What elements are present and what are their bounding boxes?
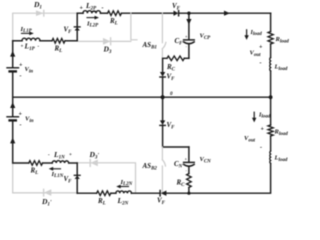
node junction dot at CF branch [187,12,190,15]
resistor RL (row 3) [29,161,43,166]
svg-text:+: + [80,6,84,12]
capacitor CN [184,162,195,166]
svg-text:-: - [186,168,188,173]
svg-text:IL1P: IL1P [20,26,33,34]
wire to junction [65,40,77,42]
svg-text:D3: D3 [103,45,112,56]
svg-text:+: + [69,153,72,158]
resistor RL (bottom rail) [97,191,111,196]
wire [131,192,160,194]
svg-text:RL: RL [97,197,106,206]
wire [101,12,108,14]
svg-text:+: + [19,63,23,69]
diode VF (center, above node 0) [160,72,165,77]
svg-text:Rload: Rload [274,129,289,137]
wire: top rail gray segment with D1 branch (left rail upper gray part) [13,13,78,41]
svg-text:-: - [260,145,262,151]
svg-text:VCP: VCP [200,33,212,41]
wire: middle rail [13,96,271,98]
resistor Rload (top) [268,32,273,45]
wire: left rail lower gray + bottom gray rail [13,163,78,193]
inductor Lload (bottom) [269,151,272,164]
wire: top rail black from node A to top-right corner [77,12,83,14]
svg-text:VF: VF [64,26,73,35]
svg-text:+: + [259,44,263,50]
battery Vin (bottom) [7,117,19,121]
diode D3 (gray) [103,38,111,45]
wire: right rail top (load branch) [270,13,272,31]
wire [77,192,96,194]
svg-text:Iload: Iload [250,30,263,37]
svg-text:ASB1: ASB1 [142,41,157,50]
switch ASB1 (gray) [162,13,166,58]
svg-text:+: + [19,112,23,118]
svg-text:Vin: Vin [25,66,34,74]
svg-text:+: + [261,127,265,133]
svg-text:D1': D1' [41,197,52,207]
svg-text:Iload: Iload [258,113,271,120]
svg-text:0: 0 [170,91,173,97]
svg-text:RC: RC [176,179,186,188]
svg-text:-: - [48,153,50,158]
inductor L1N [52,161,68,163]
svg-text:VF: VF [64,175,73,184]
resistor RC (top) [167,56,184,61]
diode D1 (gray, inactive) [36,10,44,16]
wire [122,12,174,14]
wire [270,44,272,58]
svg-text:D1: D1 [33,0,42,11]
current arrow IL2P [87,16,99,20]
current arrow up (left rail bottom) [10,137,15,143]
diode VF (bottom rail, pointing left) [160,191,166,196]
svg-text:RL: RL [54,45,63,54]
wire [188,13,190,39]
wire [76,13,78,41]
current arrow Iload (top) [244,30,248,40]
svg-text:RC: RC [166,63,176,72]
diode VF (vertical, pointing up, bottom) [74,175,80,179]
svg-text:L1N: L1N [53,150,65,161]
inductor L1P [22,38,40,41]
diode D3' (gray) [90,160,98,167]
switch ASB2 (gray) [162,147,165,193]
node dot middle wire / right rail [269,95,273,99]
inductor Lload (top) [269,58,272,72]
svg-text:Vout: Vout [250,50,262,58]
svg-text:Lload: Lload [274,64,288,72]
resistor RC (bottom, vertical) [187,174,192,188]
wire [76,163,78,193]
wire [162,77,164,97]
svg-text:L2P: L2P [85,1,97,12]
current arrow up (left rail top) [10,51,15,57]
wire: left rail black section [12,41,14,68]
svg-text:D3': D3' [89,150,100,161]
svg-text:VF: VF [172,2,181,11]
current arrow on top rail [224,11,230,16]
svg-text:L1P: L1P [24,42,36,53]
svg-text:CN: CN [174,160,183,169]
svg-text:-: - [20,123,22,129]
svg-text:-: - [102,6,104,12]
wire (gray) [79,40,131,42]
inductor L2N [116,191,131,193]
svg-text:RL: RL [109,17,118,26]
svg-text:Rload: Rload [275,36,290,44]
svg-text:IL2N: IL2N [120,179,133,187]
resistor RL (top row) [108,11,122,16]
diode VF (vertical, pointing up) [74,27,80,31]
wire [40,40,52,42]
wire [43,162,53,164]
wire: right rail to bottom-right corner then bottom rail [189,164,271,194]
svg-text:ASB2: ASB2 [142,162,158,171]
svg-text:Vout: Vout [244,135,256,143]
wire [12,120,14,163]
wire [179,12,271,14]
svg-text:+: + [21,45,24,50]
svg-text:L2N: L2N [117,196,129,207]
wire [270,136,272,151]
svg-text:RL: RL [30,167,39,176]
current arrow IL2N [116,185,128,189]
wire [270,71,272,125]
diode VF (top rail output diode) [174,11,179,16]
svg-text:VCN: VCN [200,156,212,164]
node 0 [161,95,165,99]
wire down and right to CN [163,125,189,147]
current arrow up (left rail middle) [10,102,15,108]
svg-text:+: + [185,157,188,162]
svg-text:CF: CF [175,37,184,46]
wire to bottom rail [188,188,190,194]
wire corner to center vertical [163,58,167,72]
svg-text:-: - [20,74,22,80]
current arrow IL1P [22,32,34,36]
svg-text:-: - [38,45,40,50]
svg-text:-: - [260,61,262,67]
resistor RL (row 2) [52,39,65,44]
resistor Rload (bottom) [268,125,273,136]
svg-text:IL1N: IL1N [51,171,64,179]
inductor L2P [83,11,101,14]
svg-text:VF: VF [167,121,176,130]
svg-text:-: - [186,44,188,49]
node dot at bottom rail [187,192,190,195]
diode D1' (gray) [44,189,52,196]
svg-text:VF: VF [157,197,166,206]
wire (gray) [79,163,136,193]
wire below node 0 [162,97,164,120]
svg-text:IL2P: IL2P [86,21,99,29]
wire [13,162,29,164]
wire [166,192,189,194]
wire to corner [69,162,78,164]
current arrow Iload (bottom) [252,112,256,122]
battery Vin (top) [7,68,19,72]
svg-text:Lload: Lload [274,155,288,163]
wire from cap down and left through RC [188,44,190,58]
current arrow IL1N [49,167,61,171]
wire [12,71,14,116]
diode VF (center, below node 0) [160,120,165,125]
svg-text:+: + [185,34,188,39]
svg-text:VF: VF [167,73,176,82]
wire (gray) [161,13,163,43]
capacitor CF [184,40,195,44]
current arrow down (CF branch) [186,19,191,25]
wire [188,167,190,174]
wire [13,40,22,42]
svg-text:Vin: Vin [25,116,34,124]
